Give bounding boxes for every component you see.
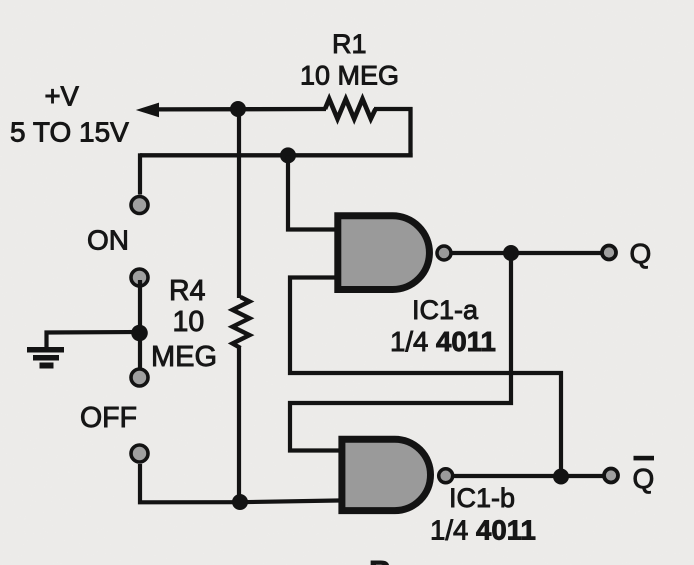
terminal Q [602, 246, 616, 260]
svg-text:10 MEG: 10 MEG [300, 61, 399, 91]
overline of Q-bar [634, 456, 655, 461]
svg-text:5 TO 15V: 5 TO 15V [10, 117, 129, 148]
svg-text:Q: Q [633, 463, 655, 494]
node: junction on top rail [230, 101, 246, 117]
NAND gate IC1-b (body) [342, 439, 431, 510]
wire: IC1-a input 1 drop [288, 155, 342, 229]
touch pad OFF top [131, 369, 148, 386]
touch pad OFF bottom [131, 445, 148, 462]
arrow head on +V rail [136, 103, 159, 118]
svg-text:IC1-a: IC1-a [412, 295, 479, 325]
node: junction at ground tap [131, 325, 148, 342]
svg-text:R1: R1 [332, 29, 367, 59]
wire: OFF pad to bottom rail [140, 464, 345, 502]
svg-text:R4: R4 [169, 275, 206, 307]
node: junction on second rail [280, 147, 296, 163]
node: junction on Q-bar output [553, 469, 569, 485]
svg-text:B: B [369, 554, 391, 565]
svg-text:MEG: MEG [151, 341, 217, 373]
node: junction on bottom rail [232, 494, 248, 510]
svg-text:ON: ON [87, 225, 129, 256]
ground [27, 347, 64, 369]
svg-text:1/4 4011: 1/4 4011 [390, 326, 496, 357]
wire: cross-coupling from Q junction to IC1-b input 1 [290, 253, 511, 451]
wire: R1 right lead to corner [374, 107, 413, 111]
wire: drop to ON pad [138, 153, 142, 194]
NAND gate IC1-a (body) [338, 216, 430, 290]
wire: IC1-a output to Q [451, 251, 601, 255]
svg-text:1/4 4011: 1/4 4011 [430, 515, 536, 546]
touch pad ON bottom [131, 269, 148, 286]
wire: IC1-a input 2 from Q-bar cross-coupling [290, 278, 561, 478]
wire: vertical rail below R4 [237, 347, 241, 503]
wire: corner drop from R1 to second rail [408, 107, 412, 157]
wire: to ground [47, 332, 141, 348]
wire: IC1-b output to Q-bar [453, 474, 603, 478]
touch pad ON top [131, 197, 148, 214]
wire: pad column through ground junction [138, 280, 142, 375]
wire: +V top rail [155, 107, 326, 112]
svg-text:OFF: OFF [80, 402, 137, 434]
resistor R4 (vertical zigzag) [233, 297, 250, 348]
svg-text:+V: +V [45, 81, 80, 112]
node: junction on Q output [503, 245, 519, 261]
svg-text:10: 10 [173, 306, 205, 338]
resistor R1 (zigzag) [325, 99, 376, 119]
wire: second horizontal rail [140, 153, 413, 157]
terminal Q-bar [604, 469, 618, 483]
IC1-b output inversion bubble [439, 469, 453, 483]
wire: vertical rail through R4 (upper) [237, 109, 241, 298]
IC1-a output inversion bubble [437, 246, 451, 260]
svg-text:Q: Q [630, 238, 652, 269]
svg-text:IC1-b: IC1-b [449, 483, 515, 513]
